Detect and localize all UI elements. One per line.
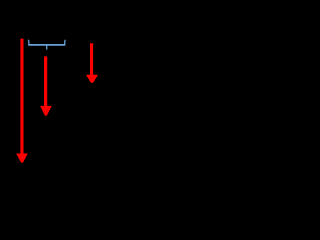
bracket B1 left end riser (27, 40, 30, 45)
arrow A2 shaft (middle arrow) (44, 56, 47, 106)
bracket B1 horizontal line (28, 44, 65, 46)
bracket B1 center tick (46, 45, 48, 50)
arrow A3 head (86, 75, 98, 83)
arrow A3 shaft (right arrow) (90, 43, 93, 75)
arrow A1 shaft (long left arrow) (20, 39, 23, 154)
arrow A1 head (16, 154, 28, 163)
arrow A2 head (40, 106, 52, 116)
bracket B1 right end riser (64, 40, 67, 45)
